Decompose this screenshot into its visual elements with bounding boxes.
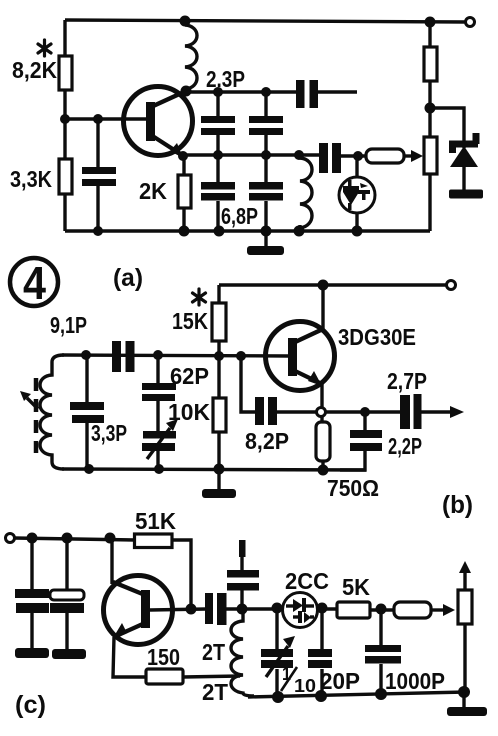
wire [216,135,219,155]
capacitor C9 3.3P [85,355,88,403]
wire [216,155,219,183]
wire [293,615,298,618]
capacitor C4 [249,116,283,123]
resistor R13 [394,602,431,618]
capacitor C12 8.2P [255,397,264,425]
capacitor C5 [201,182,235,190]
svg-text:2,2P: 2,2P [388,433,422,459]
wire [30,613,33,649]
label * b [193,289,206,305]
inductor L1 [185,25,197,89]
svg-text:2T: 2T [202,639,225,665]
wire collector rail [186,90,297,93]
node L1 top [180,16,191,27]
wire base c [150,609,206,610]
resistor R9 750 [320,416,323,424]
wire [216,201,219,231]
trimmer arrow [266,646,288,677]
svg-text:3,3K: 3,3K [10,166,52,192]
svg-text:10K: 10K [168,399,210,425]
wire C3 C4 verticals [216,92,219,117]
junction [294,226,305,237]
svg-text:4: 4 [23,257,46,309]
wire [310,615,314,618]
wire [182,157,185,175]
wire C1 vertical [96,119,99,168]
svg-text:2,7P: 2,7P [387,368,427,394]
trimmer C11 [156,400,159,432]
svg-text:51K: 51K [135,508,176,534]
svg-text:3DG30E: 3DG30E [338,324,416,350]
wire [428,22,431,47]
junction [458,686,470,698]
wire base [65,117,146,120]
wire top rail [65,20,466,22]
wire base rail b [62,355,289,356]
wire out rail b [325,410,400,413]
node bottom dots [93,226,103,236]
node 1000P top [376,604,387,615]
junction [261,226,272,237]
svg-text:8,2K: 8,2K [12,57,57,83]
wire [264,135,267,155]
capacitor C21 1000P [379,609,382,646]
wire emitter c [113,637,146,677]
wire bottom rail c [248,692,466,697]
wire [217,356,220,398]
inductor L2 [300,158,312,228]
node emitter open [317,408,326,417]
coil L3 tank [40,355,64,469]
node dots rail c [27,533,38,544]
ground circuit b [217,469,220,490]
node bottom c dots [272,691,284,703]
node top right [425,17,436,28]
svg-text:750Ω: 750Ω [327,475,379,501]
svg-text:2.3P: 2.3P [206,66,245,92]
wire [183,676,240,677]
wire supply arrow [463,568,466,590]
ground circuit c [462,692,465,708]
wire 8.2P branch [241,356,256,412]
resistor R1 8.2K [59,56,72,90]
resistor R3 2K [178,175,191,208]
wire out stub [316,90,357,93]
svg-text:62P: 62P [170,363,209,389]
wire collector b [321,285,324,331]
node C7 right [353,151,363,161]
svg-text:(b): (b) [442,491,473,519]
wire [182,208,185,231]
svg-text:20P: 20P [320,668,360,694]
node 8.2P branch [236,351,246,361]
zener D2 [449,133,483,199]
core dashed [34,378,39,453]
wire arrow into pot c [431,608,447,611]
junction [179,226,190,237]
transistor Q1 [124,87,193,159]
svg-text:150: 150 [147,644,180,670]
svg-text:9,1P: 9,1P [50,312,87,338]
capacitor C13 2.2P [363,412,366,431]
junction [294,150,304,160]
wire out arrow b [421,410,455,413]
node collector [181,86,192,97]
wire [286,604,295,607]
wire left vertical [63,20,66,231]
capacitor C6 [249,182,283,190]
ground circuit a [264,231,267,247]
junction [154,464,164,474]
junction [318,465,329,476]
junction [105,533,116,544]
svg-text:2T: 2T [202,679,228,705]
label * [38,40,51,56]
wire emitter rail [183,153,320,156]
wire to zener [430,108,464,148]
node emitter [178,151,188,161]
wire [428,174,431,231]
wire [340,449,365,470]
wire [65,613,68,650]
transistor Q2 [266,322,335,391]
node C4 top [261,87,271,97]
svg-text:(a): (a) [113,264,143,292]
capacitor C20 20P [320,608,323,650]
wire [463,624,466,692]
capacitor C2 out [296,80,305,108]
node base-left [60,114,70,124]
node C1 top [93,114,103,124]
resistor R8 10K [213,398,226,432]
wire bottom rail [65,229,430,232]
varactor D1 [339,156,375,231]
transistor Q3 [104,576,173,645]
wire [264,92,267,117]
svg-text:15K: 15K [172,308,208,334]
wire [428,81,431,137]
svg-text:6,8P: 6,8P [221,203,258,229]
node C3 top [213,87,223,97]
wire [379,664,382,694]
wire top rail c [14,538,135,540]
wire [320,669,323,696]
wire [370,608,394,611]
figure number 4 [10,258,58,306]
trimmer arrow [147,428,170,459]
resistor R6 pot [424,137,437,174]
wire top rail b [219,283,446,286]
trimmer C19 [275,608,278,650]
capacitor C16 [65,538,68,591]
svg-text:5K: 5K [342,574,370,600]
node 62P top [153,350,163,360]
capacitor C3 [201,116,235,123]
wire [156,449,159,469]
capacitor C8 9.1P [112,341,121,372]
antenna stub and cap C18 [239,540,246,557]
node 2.2P top [360,407,370,417]
terminal c left [6,534,15,543]
wire [217,432,220,469]
capacitor C7 coupling [319,143,328,173]
node 20P top [317,603,328,614]
wire [275,669,278,697]
wire [226,607,282,610]
junction [352,226,363,237]
wire to 5K [317,607,337,610]
resistor R7 15K [217,285,220,303]
wire [339,154,366,157]
node mid right [425,103,436,114]
resistor R4 [366,149,404,163]
svg-text:(c): (c) [15,691,46,719]
node tank top c [237,604,248,615]
wire [264,201,267,231]
wire [306,604,314,607]
wire [321,461,324,470]
node 15K bottom [214,351,224,361]
wire [240,590,243,609]
node trimmer top [272,603,283,614]
terminal top right [466,18,475,27]
wire [96,186,99,231]
inductor L4 [231,612,254,696]
wire [264,155,267,183]
wire emitter b [320,383,323,408]
capacitor C14 2.7P [400,395,410,429]
svg-text:8,2P: 8,2P [245,428,289,454]
wire bottom rail b [62,469,366,470]
resistor R14 pot [458,590,472,624]
capacitor C1 [82,167,116,174]
arrow core [27,398,38,409]
node base 51K [186,604,197,615]
wire [217,341,220,356]
wire arrow into R5 [404,154,415,157]
svg-text:3,3P: 3,3P [91,420,127,446]
wire [277,410,317,413]
wire collector c [110,538,113,584]
node rail b [318,280,329,291]
svg-text:10: 10 [294,676,316,696]
capacitor C10 62P [156,355,159,384]
wire [298,225,301,231]
junction [315,690,327,702]
terminal b right [447,281,456,290]
junction [213,150,223,160]
junction [62,533,73,544]
capacitor C17 coupling [205,593,213,624]
junction [214,226,225,237]
svg-text:2CC: 2CC [285,568,329,594]
capacitor C15 [30,538,33,590]
junction [214,464,225,475]
resistor R2 3.3K [59,159,72,194]
svg-text:1000P: 1000P [385,668,445,694]
node bottom b dots [84,464,94,474]
resistor R5 top right [424,47,437,81]
svg-text:2K: 2K [139,178,167,204]
node tank top [81,350,91,360]
junction [375,688,387,700]
wire [85,421,88,469]
wire [172,540,191,609]
junction [261,150,271,160]
